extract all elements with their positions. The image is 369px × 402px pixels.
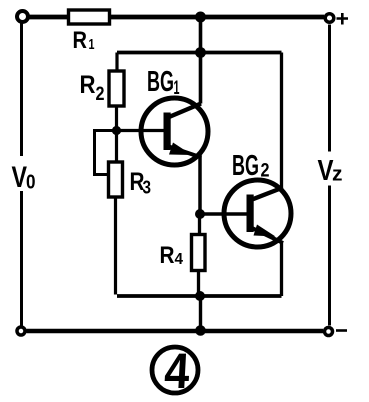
label BG2 [232, 150, 270, 182]
junction node bottom rail [195, 325, 206, 336]
wire inner bottom edge [117, 294, 282, 298]
wire inner top edge [117, 51, 282, 55]
terminal input + (top-left) [17, 11, 28, 22]
svg-text:3: 3 [143, 178, 152, 198]
wire right rail lower [328, 186, 331, 326]
wire R2 bottom to R3 top [115, 106, 118, 162]
figure number 4 (circled) [152, 343, 198, 399]
svg-text:1: 1 [174, 78, 180, 99]
svg-text:1: 1 [89, 36, 95, 53]
wire emitter BG1 down [198, 157, 202, 214]
wire emitter BG2 to inner bottom edge [280, 242, 283, 296]
junction node top edge [195, 47, 206, 58]
junction node bottom edge [195, 291, 205, 301]
label R3 [130, 168, 152, 198]
resistor R4 [192, 235, 206, 271]
wire top rail right segment [110, 15, 325, 20]
minus sign [336, 329, 347, 332]
svg-text:BG: BG [147, 66, 174, 98]
wire R2 top stub [115, 53, 118, 72]
transistor BG1 [141, 98, 208, 165]
terminal (bottom-left) [17, 327, 25, 335]
wire R4 top stub [198, 214, 201, 235]
terminal + (top-right) [325, 14, 334, 23]
resistor R1 [69, 10, 110, 24]
transistor BG2 [224, 180, 291, 247]
wire base BG2 [200, 212, 247, 216]
label R2 [80, 71, 105, 105]
svg-text:R: R [160, 242, 175, 269]
terminal - (bottom-right) [325, 328, 333, 336]
label Vz [318, 155, 343, 187]
wire left rail lower [20, 191, 23, 326]
wire bottom rail [27, 329, 324, 334]
wire collector feed vertical (top rail to BG1 collector) [199, 17, 203, 104]
svg-text:R: R [80, 71, 96, 99]
junction node base BG2 [195, 209, 205, 219]
resistor R2 [109, 71, 124, 106]
svg-text:BG: BG [232, 150, 259, 182]
wire left rail upper [20, 24, 23, 157]
svg-text:4: 4 [175, 251, 184, 268]
wire R4 bottom stub [197, 271, 200, 297]
wire base BG1 [117, 129, 165, 132]
svg-text:2: 2 [96, 84, 105, 105]
svg-text:2: 2 [261, 161, 270, 182]
resistor R3 [109, 162, 123, 197]
plus sign [337, 13, 349, 25]
wire R3 tap loop [95, 131, 117, 175]
label R1 [73, 27, 95, 54]
label BG1 [147, 66, 180, 99]
label V0 [12, 161, 36, 194]
wire R3 bottom to inner bottom edge [114, 197, 117, 295]
svg-text:0: 0 [26, 171, 36, 194]
wire collector BG2 to inner top edge [280, 53, 283, 189]
wire right rail upper [328, 25, 331, 152]
svg-text:4: 4 [163, 343, 191, 399]
label R4 [160, 242, 184, 269]
wire top rail left segment [30, 15, 69, 20]
wire bottom edge to bottom rail [199, 296, 202, 331]
svg-text:R: R [73, 27, 88, 54]
svg-text:z: z [332, 164, 343, 186]
svg-text:V: V [12, 161, 28, 194]
junction node base BG1 [112, 126, 121, 135]
junction node top rail [195, 12, 206, 23]
